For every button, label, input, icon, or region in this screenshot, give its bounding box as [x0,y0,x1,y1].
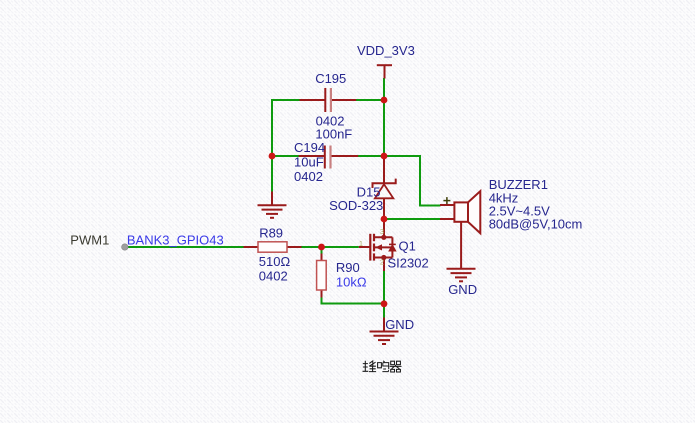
capacitor C195 [300,88,357,112]
svg-text:C195: C195 [315,71,346,86]
pin + buzzer positive [443,197,450,204]
svg-text:2: 2 [380,258,384,267]
wire R89 to gate [301,246,359,248]
power symbol VDD_3V3 [377,65,392,78]
svg-text:GND: GND [448,282,477,297]
svg-text:100nF: 100nF [315,126,352,141]
wire C194 left [272,155,299,157]
svg-text:80dB@5V,10cm: 80dB@5V,10cm [489,217,583,232]
capacitor C194 [299,146,359,169]
port pin dot [122,244,128,250]
svg-text:GND: GND [385,317,414,332]
ground bottom [370,318,399,345]
transistor Q1 SI2302 [359,219,396,271]
svg-text:3: 3 [380,227,384,236]
junction node VDD/C195 [381,97,388,104]
junction node rail/C194 [381,153,388,160]
ground buzzer [447,269,476,282]
svg-text:R90: R90 [336,260,360,275]
svg-text:0402: 0402 [259,269,288,284]
svg-text:VDD_3V3: VDD_3V3 [357,43,415,58]
svg-text:C194: C194 [294,140,325,155]
junction node R89/R90/gate [318,244,325,251]
junction node left rail/C194 [269,153,276,160]
wire buzzer bottom row [384,218,441,220]
ground left [258,192,287,218]
wire C195 right [356,99,385,101]
wire VDD rail top [383,78,385,157]
wire C195 left [271,99,300,101]
wire left rail [271,99,273,192]
svg-text:R89: R89 [259,226,283,241]
junction node drain/buzzer [381,216,388,223]
resistor R90 [317,254,327,298]
svg-text:510Ω: 510Ω [259,254,291,269]
svg-text:SI2302: SI2302 [388,255,429,270]
caption 蜂鸣器 (drawn strokes) [363,361,402,372]
svg-text:0402: 0402 [294,169,323,184]
wire junction to R90 top [321,247,323,254]
wire R90 bottom L [322,297,386,304]
wire C194 right to corner [358,155,420,157]
svg-text:10uF: 10uF [294,155,324,170]
svg-text:SOD-323: SOD-323 [329,198,383,213]
svg-text:BANK3_GPIO43: BANK3_GPIO43 [127,233,224,248]
wire right branch vertical [420,155,441,206]
junction node source/R90/GND [381,300,388,307]
diode D15 zener [373,158,396,219]
svg-text:10kΩ: 10kΩ [336,275,367,290]
wire PWM1 to R89 [126,246,244,248]
buzzer BUZZER1 [440,191,480,269]
svg-text:PWM1: PWM1 [70,233,109,248]
svg-text:Q1: Q1 [399,238,416,253]
svg-text:1: 1 [359,239,363,248]
wire Q1 source down [383,271,385,318]
resistor R89 [244,242,302,252]
